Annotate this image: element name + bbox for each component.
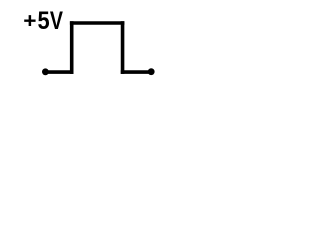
- wire: left lead from left terminal to rising edge: [45, 70, 73, 74]
- node dot: left terminal: [42, 68, 49, 75]
- svg-text:+: +: [23, 8, 36, 32]
- wire: right lead from falling edge to right terminal: [121, 70, 151, 74]
- value label +5V: [23, 7, 63, 35]
- wire: pulse rising edge (0V to +5V): [70, 21, 74, 74]
- wire: pulse falling edge (+5V to 0V): [121, 21, 125, 74]
- wire: pulse top at +5V level: [70, 21, 124, 25]
- node dot: right terminal: [148, 68, 155, 75]
- svg-text:V: V: [50, 7, 63, 35]
- svg-text:5: 5: [37, 7, 49, 35]
